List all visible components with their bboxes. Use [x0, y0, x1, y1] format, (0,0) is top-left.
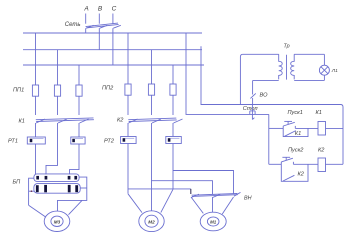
wire tap L3a from branch2 pole3 [173, 171, 234, 195]
svg-text:ВО: ВО [260, 93, 269, 99]
wire rung2 right segment [326, 163, 344, 165]
fuse ПП1 pole1 [32, 85, 38, 96]
transformer Тр secondary winding [291, 54, 295, 79]
block БП lower capsule bar 2 [68, 185, 71, 192]
transformer Тр secondary top wire [294, 53, 324, 55]
wire branch1 pole2 fuse to K1 [57, 96, 59, 115]
wire branch1 pole3 from bus L3 [78, 65, 80, 85]
wire branch1 pole2 K1 down with jog into БП [46, 123, 58, 174]
wire БП right link stub to lower capsule [80, 187, 87, 189]
svg-text:Пуск2: Пуск2 [288, 148, 304, 154]
fuse ПП1 pole3 [76, 85, 82, 96]
switch ВН linkage bar upper [192, 194, 238, 196]
block БП upper capsule terminal 4 [74, 176, 77, 180]
contactor K2 blade pole3 [174, 119, 183, 123]
svg-text:В: В [98, 6, 103, 13]
switch ВН linkage bar lower [192, 195, 238, 197]
coil K1 [318, 122, 326, 136]
thermal relay РТ1 heater pole3 [71, 137, 85, 144]
svg-text:К2: К2 [298, 171, 305, 177]
block БП upper capsule [34, 174, 79, 182]
wire branch1 pole1 fuse to K1 [35, 96, 37, 115]
wire phase B to bus L2 [98, 28, 100, 50]
wire rung2 mid segment [293, 163, 318, 165]
wire branch2 pole1 from bus L1 [127, 33, 129, 84]
wire control drop from bus L2 [201, 46, 341, 104]
bus L1 [23, 32, 202, 34]
thermal relay РТ2 heater pole1 [121, 137, 137, 144]
junction dot БП left [31, 190, 33, 192]
transformer Тр primary winding [279, 54, 283, 79]
wire branch1 pole3 RT1 to BP with jog [70, 144, 80, 174]
svg-text:М3: М3 [54, 220, 61, 225]
bus L2 [23, 49, 202, 51]
switch Сеть blade pole B [100, 25, 108, 28]
wire tap L2a from branch2 pole2 [152, 181, 213, 194]
contactor K2 blade pole2 [152, 119, 161, 123]
wire phase B drop to switch [98, 14, 100, 24]
wire phase A drop to switch [85, 14, 87, 24]
block БП upper capsule terminal 1 [36, 176, 39, 180]
svg-text:БП: БП [13, 179, 22, 185]
wire БП right side link [58, 177, 87, 211]
wire control right rail [342, 107, 344, 164]
wire branch1 pole2 from bus L2 [57, 50, 59, 85]
svg-text:К2: К2 [117, 117, 124, 123]
svg-text:М2: М2 [148, 220, 155, 225]
wire ladder left rail [268, 114, 270, 164]
wire branch2 pole2 K2 down to M2 [151, 123, 153, 211]
contactor K2 linkage bar lower [129, 120, 177, 122]
fuse ПП2 pole2 [148, 84, 154, 95]
switch ВН blade pole2 [213, 194, 221, 197]
wire branch2 pole3 K2 to RT2 [172, 123, 174, 137]
contact K1 aux blade [285, 131, 296, 137]
svg-text:С: С [112, 6, 117, 13]
wire phase C drop to switch [112, 14, 114, 24]
wire branch2 pole1 RT2 down [127, 144, 129, 194]
svg-text:ПП2: ПП2 [102, 86, 114, 92]
switch Сеть blade pole A [86, 25, 94, 28]
wire tap L1a from branch2 pole1 [128, 188, 191, 190]
transformer Тр secondary bottom wire [294, 79, 324, 81]
wire control right rail corner [341, 105, 344, 108]
button Пуск1 [283, 121, 295, 128]
contact K2 aux blade [283, 175, 294, 181]
block БП lower capsule terminal 1 [36, 185, 39, 192]
wire tap L1a corner drop (dark) [190, 189, 192, 194]
switch Сеть linkage bar upper [86, 23, 118, 27]
wire branch1 pole1 K1 to RT1 [35, 123, 37, 137]
motor M3 [44, 211, 70, 231]
svg-text:Сеть: Сеть [65, 22, 81, 28]
wire ВО to rail [252, 98, 254, 105]
wire branch1 pole1 RT1 to BP [35, 144, 37, 175]
wire rung2 left segment [269, 163, 282, 165]
contact K2 aux bypass wire [281, 164, 308, 181]
block БП lower capsule [34, 184, 80, 194]
switch ВН blade pole3 [234, 192, 241, 196]
wire branch1 pole3 K1 to RT1 [78, 123, 80, 137]
wire control loop left vertical [240, 54, 243, 104]
lamp Л1 [319, 65, 329, 75]
wire branch2 pole3 RT2 down [172, 144, 174, 190]
wire БП left side link [29, 178, 34, 205]
wire M3 feed left diagonal [29, 205, 46, 217]
wire БП left link stub to lower capsule [29, 190, 34, 192]
motor M1 [200, 212, 226, 231]
contactor K1 blade pole2 [58, 119, 67, 123]
wire M2 feed right [161, 189, 173, 212]
svg-text:А: А [83, 6, 88, 13]
block БП lower capsule bar 1 [44, 185, 47, 192]
svg-text:К1: К1 [316, 110, 322, 116]
wire phase A to bus L1 [85, 28, 87, 33]
wire phase C to bus L3 [112, 28, 114, 65]
svg-text:М1: М1 [210, 220, 217, 225]
contactor K1 linkage bar upper [36, 118, 94, 120]
block БП upper capsule terminal 2 [45, 176, 48, 180]
svg-text:Тр: Тр [284, 44, 290, 50]
wire M3 feed right diagonal [69, 200, 83, 214]
transformer Тр core [286, 55, 288, 80]
fuse ПП2 pole1 [125, 84, 131, 95]
svg-text:Л1: Л1 [331, 68, 338, 74]
wire branch2 pole2 fuse to K2 [151, 95, 153, 115]
svg-text:РТ2: РТ2 [104, 138, 115, 144]
contactor K1 blade pole3 [80, 119, 89, 123]
transformer Тр primary bottom wire [253, 79, 279, 81]
contact K1 aux bypass wire [283, 128, 308, 136]
wire branch1 pole3 fuse to K1 [78, 96, 80, 115]
thermal relay РТ2 heater pole3 [166, 137, 182, 144]
wire M2 feed left [128, 194, 142, 213]
wire branch2 pole1 K2 to RT2 [127, 123, 129, 137]
block БП lower capsule terminal 2 [75, 185, 78, 192]
transformer Тр primary top wire [243, 53, 279, 55]
fuse ПП1 pole2 [54, 85, 60, 96]
contactor K1 linkage bar lower [36, 120, 94, 122]
switch ВО blade [250, 93, 255, 98]
fuse ПП2 pole3 [170, 84, 176, 95]
block БП upper capsule terminal 3 [68, 176, 71, 180]
wire rung1 mid segment [295, 127, 318, 129]
svg-text:Пуск1: Пуск1 [288, 110, 303, 116]
button Стоп [250, 105, 255, 120]
wire primary bottom to ВО [252, 80, 254, 94]
wire M1 feed right [222, 197, 233, 214]
thermal relay РТ1 heater pole1 [27, 137, 45, 144]
wire branch1 pole1 from bus L1 [35, 33, 37, 85]
wire branch2 pole1 fuse to K2 [127, 95, 129, 115]
button Пуск2 [281, 157, 293, 164]
svg-text:ПП1: ПП1 [13, 88, 24, 94]
contactor K2 blade pole1 [129, 119, 138, 123]
switch Сеть linkage bar lower [86, 24, 118, 28]
wire control drop from bus L1 [186, 33, 269, 114]
wire rung1 right segment [326, 127, 344, 129]
coil K2 [318, 158, 326, 172]
svg-text:ВН: ВН [244, 195, 252, 201]
wire M1 feed left [191, 197, 203, 213]
wire branch2 pole2 from bus L2 [151, 50, 153, 84]
wire secondary right down to lamp [323, 54, 325, 65]
wire lamp bottom [323, 75, 325, 80]
motor M2 [139, 211, 164, 232]
switch Сеть blade pole C [113, 25, 121, 28]
wire rung1 left segment [269, 127, 283, 129]
wire branch2 pole3 from bus L3 [172, 65, 174, 84]
wire M1 feed center [212, 197, 214, 212]
contactor K1 blade pole1 [36, 119, 45, 123]
svg-text:К2: К2 [318, 147, 325, 153]
contactor K2 linkage bar upper [128, 118, 176, 120]
wire branch2 pole3 fuse to K2 [172, 95, 174, 115]
svg-text:РТ1: РТ1 [8, 138, 18, 144]
switch ВН blade pole1 [192, 194, 200, 197]
svg-text:К1: К1 [19, 118, 25, 124]
bus L3 [23, 64, 204, 66]
